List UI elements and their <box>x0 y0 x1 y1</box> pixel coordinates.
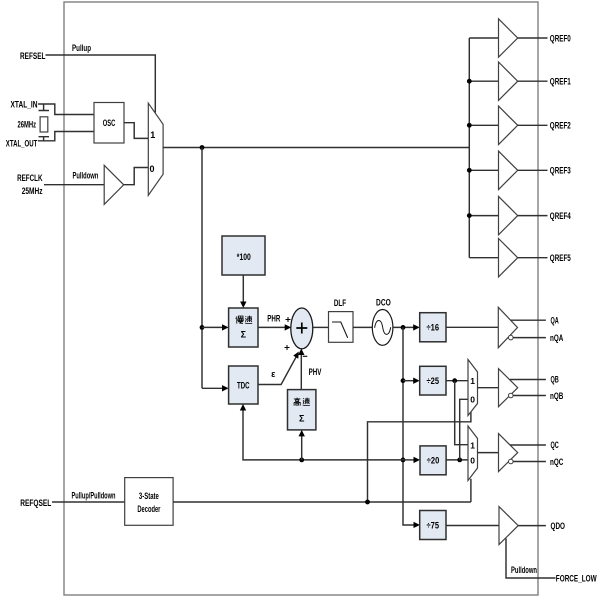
wire QREF5 out <box>518 257 548 259</box>
wire slow sigma to summer <box>258 326 286 328</box>
wire QDO out <box>518 525 546 527</box>
wire QREF3 out <box>518 169 548 171</box>
svg-text:÷25: ÷25 <box>427 376 440 386</box>
summer S1 <box>291 308 313 349</box>
svg-text:TDC: TDC <box>237 381 250 391</box>
wire DLF to DCO <box>353 326 372 328</box>
wire select net risers <box>368 412 471 502</box>
block fast sigma (gao su) <box>288 390 316 430</box>
plus sign at summer left input <box>286 317 291 322</box>
wire QREF5 input <box>469 257 498 259</box>
wire REFQSEL to decoder <box>52 501 125 503</box>
node QREF1 tap <box>467 79 472 84</box>
divider div20 <box>420 446 446 475</box>
svg-text:÷20: ÷20 <box>427 456 440 466</box>
wire OSC out to mux input 1 <box>124 123 148 139</box>
svg-text:Pullup/Pulldown: Pullup/Pulldown <box>72 491 116 501</box>
svg-text:1: 1 <box>150 130 155 140</box>
buffer QREF1 <box>499 62 518 100</box>
svg-text:PHR: PHR <box>267 314 280 324</box>
wire REFSEL to mux select <box>46 55 156 113</box>
buffer QB <box>499 369 518 407</box>
plus sign at TDC summer input <box>285 345 290 350</box>
oscillator OSC <box>94 103 124 144</box>
multiplier *100 <box>222 236 265 275</box>
wire QREF3 input <box>469 169 498 171</box>
svg-text:nQB: nQB <box>550 391 564 401</box>
wire divider rail <box>403 327 415 525</box>
wire QC out <box>510 444 546 446</box>
svg-text:Decoder: Decoder <box>137 504 160 514</box>
svg-text:*100: *100 <box>237 252 251 262</box>
wire div20 to QC mux pin0 <box>446 459 468 461</box>
decoder 3-State <box>125 478 173 526</box>
bubble nQA <box>509 335 514 340</box>
svg-text:÷75: ÷75 <box>427 520 440 530</box>
bubble nQC <box>509 459 514 464</box>
buffer QREF4 <box>499 196 518 234</box>
svg-text:XTAL_IN: XTAL_IN <box>11 100 38 110</box>
mux QC <box>468 426 478 481</box>
wire nQA out <box>513 337 546 339</box>
bubble nQB <box>509 393 514 398</box>
wire nQC out <box>513 461 546 463</box>
buffer QA <box>498 307 517 347</box>
wire QREF2 input <box>469 124 498 126</box>
svg-text:nQA: nQA <box>550 333 564 343</box>
buffer QDO <box>499 507 518 545</box>
svg-text:DLF: DLF <box>334 298 347 308</box>
chip boundary <box>64 2 538 595</box>
wire arrow feedback into fast sigma <box>301 435 303 460</box>
node divider rail 25 <box>401 378 406 383</box>
wire arrow into div20 <box>403 459 415 461</box>
svg-text:1: 1 <box>470 376 475 386</box>
svg-text:÷16: ÷16 <box>427 323 440 333</box>
svg-text:Σ: Σ <box>241 330 247 340</box>
wire decoder out select line <box>173 501 471 503</box>
svg-text:OSC: OSC <box>103 118 116 128</box>
node left rail to slow-sigma <box>200 325 205 330</box>
wire XTAL_OUT to OSC <box>38 132 94 141</box>
svg-text:nQC: nQC <box>550 457 564 467</box>
svg-text:QREF5: QREF5 <box>550 253 571 263</box>
node div20 out <box>457 458 462 463</box>
wire QREF4 input <box>469 215 498 217</box>
wire QREF0 input <box>469 37 498 39</box>
wire div25 to QB mux pin1 <box>446 380 468 382</box>
svg-text:QREF1: QREF1 <box>550 77 571 87</box>
svg-text:REFCLK: REFCLK <box>17 173 43 183</box>
wire buffer out to mux input 0 <box>124 168 149 185</box>
svg-text:3-State: 3-State <box>139 491 159 501</box>
block TDC <box>229 366 258 404</box>
block slow sigma (man su) <box>229 308 258 347</box>
wire div75 to QDO buffer <box>446 525 499 527</box>
svg-text:Pullup: Pullup <box>72 43 91 53</box>
svg-text:ε: ε <box>271 369 276 379</box>
svg-text:QREF3: QREF3 <box>550 166 571 176</box>
wire QREF0 out <box>518 37 548 39</box>
wire div25 to QC mux pin1 <box>455 381 468 445</box>
svg-text:XTAL_OUT: XTAL_OUT <box>6 138 38 148</box>
node main ref junction <box>200 145 205 150</box>
wire QREF1 input <box>469 80 498 82</box>
wire QREF2 out <box>518 124 548 126</box>
svg-text:QB: QB <box>551 375 560 385</box>
svg-text:0: 0 <box>470 395 475 405</box>
svg-text:QDO: QDO <box>551 521 566 531</box>
wire div16 to QA buffer <box>446 326 498 328</box>
svg-text:DCO: DCO <box>376 298 391 308</box>
wire QREF4 out <box>518 215 548 217</box>
crystal Y1 top lead <box>39 104 50 111</box>
wire left rail down <box>201 148 203 389</box>
node QREF4 tap <box>467 213 472 218</box>
svg-text:0: 0 <box>149 164 154 174</box>
wire FORCE_LOW to buffer <box>506 539 556 579</box>
svg-text:PHV: PHV <box>309 367 322 377</box>
wire QREF1 out <box>518 80 548 82</box>
svg-text:Pulldown: Pulldown <box>73 171 99 181</box>
wire feedback line to TDC and fast sigma <box>243 410 403 460</box>
divider div16 <box>420 313 446 342</box>
wire arrow into div25 <box>403 380 414 382</box>
wire REFCLK to buffer <box>44 184 104 186</box>
wire TDC out diagonal to summer <box>258 355 297 384</box>
svg-text:Σ: Σ <box>299 414 305 424</box>
svg-text:26MHz: 26MHz <box>18 120 37 130</box>
wire XTAL_IN to OSC <box>38 104 94 115</box>
node QREF3 tap <box>467 168 472 173</box>
node div25 out <box>452 378 457 383</box>
node divider rail 20 <box>401 458 406 463</box>
svg-text:QA: QA <box>551 316 560 326</box>
wire DCO out <box>393 326 415 328</box>
buffer QREF3 <box>499 151 518 189</box>
wire QA out <box>511 319 546 321</box>
minus sign at PHV summer input <box>303 355 308 357</box>
svg-text:25MHz: 25MHz <box>22 186 43 196</box>
node QREF2 tap <box>467 123 472 128</box>
svg-text:REFQSEL: REFQSEL <box>20 498 51 508</box>
divider div25 <box>420 366 446 395</box>
wire QB mux out <box>478 387 499 389</box>
svg-text:REFSEL: REFSEL <box>20 51 46 61</box>
buffer QREF0 <box>499 19 518 57</box>
wire arrow *100 to slow sigma <box>242 275 244 303</box>
buffer QREF2 <box>499 106 518 144</box>
node feedback fast sigma <box>299 458 304 463</box>
wire nQB out <box>513 395 546 397</box>
buffer QC <box>499 434 518 472</box>
crystal Y1 body <box>40 117 48 132</box>
svg-text:QC: QC <box>551 440 560 450</box>
svg-text:QREF4: QREF4 <box>550 211 571 221</box>
wire arrow fast sigma to summer (PHV) <box>300 353 302 390</box>
divider div75 <box>420 511 446 540</box>
wire mux out main reference line <box>163 147 469 149</box>
wire div20 to QB mux pin0 <box>460 399 468 460</box>
wire arrow into slow sigma <box>202 326 223 328</box>
svg-text:0: 0 <box>470 455 475 465</box>
wire arrow into TDC <box>202 387 223 389</box>
mux QB <box>468 360 478 416</box>
svg-text:1: 1 <box>470 441 475 451</box>
wire QREF bus <box>468 38 470 258</box>
wire QC mux out <box>478 452 499 454</box>
svg-text:QREF0: QREF0 <box>550 33 571 43</box>
wire summer to DLF <box>313 326 329 328</box>
svg-text:Pulldown: Pulldown <box>511 565 537 575</box>
mux U1 reference select <box>148 103 163 195</box>
svg-text:QREF2: QREF2 <box>550 121 571 131</box>
wire QB out <box>510 379 546 381</box>
buffer REFCLK input <box>104 165 124 204</box>
crystal Y1 bottom lead <box>39 137 50 141</box>
node DCO out <box>401 325 406 330</box>
buffer QREF5 <box>499 239 518 277</box>
svg-text:FORCE_LOW: FORCE_LOW <box>556 573 597 583</box>
